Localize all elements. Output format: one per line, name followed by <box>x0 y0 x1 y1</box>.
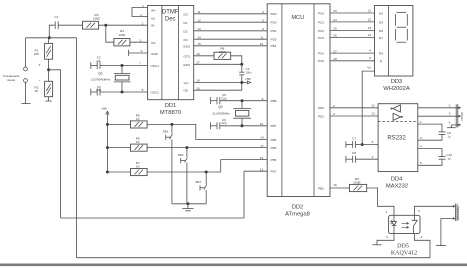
svg-text:PB0: PB0 <box>271 138 277 142</box>
optocoupler DD5 KAQV412 box <box>389 215 420 256</box>
svg-text:10: 10 <box>260 122 264 126</box>
svg-text:D2: D2 <box>184 29 188 33</box>
pushbutton SB1 <box>163 124 173 203</box>
wire: PC1 to D5 <box>330 21 375 23</box>
node: phone line terminal - <box>24 78 41 83</box>
wire: V- junction to pin6 <box>362 144 378 146</box>
node: rail R5 junction <box>106 123 109 126</box>
wire: PD1 to R1OUT <box>330 115 378 117</box>
svg-text:2: 2 <box>386 235 388 239</box>
wire: D1 to PD3 <box>194 21 268 23</box>
capacitor C3 <box>96 85 101 96</box>
wire: node to R2 <box>48 70 50 82</box>
svg-text:14: 14 <box>368 33 372 37</box>
svg-text:OSC2: OSC2 <box>151 91 160 95</box>
node: V- junction <box>361 143 364 146</box>
pushbutton SB3 <box>195 172 207 204</box>
wire: R8 to ESO node <box>231 56 242 65</box>
node A junction <box>48 36 51 39</box>
svg-text:PB3: PB3 <box>271 146 277 150</box>
DD4 pin numbers <box>371 104 422 166</box>
svg-text:6: 6 <box>418 209 420 213</box>
svg-text:C7: C7 <box>352 137 356 141</box>
svg-text:+5B: +5B <box>245 77 251 81</box>
LCD DD3 WH2002A box <box>375 6 413 92</box>
svg-text:C8: C8 <box>352 151 356 155</box>
crystal Q1 3.579545MHz <box>91 66 131 93</box>
svg-text:PC2: PC2 <box>318 29 324 33</box>
svg-text:DD3: DD3 <box>391 79 403 85</box>
svg-text:ATmega8: ATmega8 <box>285 212 310 218</box>
wire: Vcc row <box>194 82 242 84</box>
svg-text:PC4: PC4 <box>318 52 324 56</box>
svg-text:11: 11 <box>368 8 371 12</box>
wire: OSC1 row with terminator <box>91 62 97 69</box>
svg-text:MAX232: MAX232 <box>386 184 408 190</box>
svg-text:PD0: PD0 <box>318 106 324 110</box>
RS232 driver DD4 MAX232 box <box>378 104 418 190</box>
wire: PD0 to T1IN <box>330 107 378 109</box>
svg-text:13: 13 <box>371 112 375 116</box>
wire: control connector low side to ground <box>436 219 453 246</box>
wire: opto pin6 to control connector <box>414 206 452 215</box>
wire: R2 to ground <box>48 97 50 101</box>
svg-text:C1: C1 <box>55 15 59 19</box>
svg-text:5: 5 <box>449 120 451 124</box>
buffer triangle (receiver) <box>391 105 401 112</box>
node: XTAL1 junction <box>241 99 244 102</box>
svg-text:GS: GS <box>151 41 155 45</box>
wire: bus to MCU PD7 <box>61 171 244 218</box>
wire: junction down to R4 <box>106 25 114 42</box>
svg-text:6: 6 <box>372 140 374 144</box>
control connector X2 <box>453 204 461 221</box>
wire: R6 row to PB3 <box>147 147 267 149</box>
svg-text:3: 3 <box>140 38 142 42</box>
wire: PD7 row from bus <box>244 170 267 172</box>
svg-text:PC5: PC5 <box>318 59 324 63</box>
ground (opto pin2) <box>372 244 381 246</box>
wire: DD1 GND pin terminator <box>129 50 148 56</box>
node: Vcc junction <box>240 81 243 84</box>
capacitor C1 <box>55 15 59 29</box>
node: SB2 junction <box>185 146 188 149</box>
wire: C5 to PB6 <box>220 100 267 102</box>
svg-text:100n: 100n <box>246 71 252 75</box>
svg-text:C10: C10 <box>447 153 453 157</box>
svg-text:12: 12 <box>371 104 375 108</box>
wire: + terminal up to top node <box>25 38 27 67</box>
wire: PC3 to D7 <box>330 36 375 38</box>
svg-text:линия: линия <box>7 78 16 82</box>
svg-text:200E: 200E <box>353 180 360 184</box>
svg-text:1: 1 <box>142 4 144 8</box>
node: rail R6 junction <box>106 146 109 149</box>
svg-text:ESO: ESO <box>184 63 191 67</box>
power +5B arrow (DD1) <box>242 77 251 84</box>
wire: ESO to PB1 <box>194 45 268 47</box>
svg-text:14: 14 <box>260 136 264 140</box>
ground (buttons) <box>182 204 193 211</box>
svg-text:13: 13 <box>368 26 372 30</box>
svg-text:1μ: 1μ <box>448 135 451 139</box>
svg-text:Vo: Vo <box>367 66 371 70</box>
svg-text:PB1: PB1 <box>271 44 277 48</box>
wire: TX out to connector <box>418 107 459 109</box>
svg-text:RS232: RS232 <box>460 112 464 121</box>
wire: top horizontal node row <box>26 37 77 39</box>
svg-text:5: 5 <box>420 161 422 165</box>
wire: C6 to PB7 <box>220 125 267 127</box>
svg-text:PD2: PD2 <box>271 12 277 16</box>
svg-text:6: 6 <box>262 27 264 31</box>
svg-text:Q1: Q1 <box>98 72 103 76</box>
wire: bottom bus <box>77 257 430 259</box>
LCD DD3 pin numbers <box>367 8 371 69</box>
wire: D0 to PD2 <box>194 13 268 15</box>
buffer triangle (driver) <box>393 113 403 120</box>
svg-text:3: 3 <box>449 112 451 116</box>
svg-text:GTO: GTO <box>184 54 191 58</box>
wire: top node down right rail to bottom bus <box>76 38 78 258</box>
svg-text:12: 12 <box>368 17 372 21</box>
wire: PB7 row terminator <box>211 122 217 129</box>
svg-text:23: 23 <box>333 9 337 13</box>
svg-text:7: 7 <box>139 62 141 66</box>
wire: node up to C1 <box>49 25 55 38</box>
wire: D2 to PD4 <box>194 30 268 32</box>
wire: GTO to R8 <box>194 55 214 57</box>
svg-text:100K: 100K <box>219 50 227 54</box>
RS232 connector X1 <box>449 103 464 127</box>
resistor R4 <box>114 29 130 46</box>
svg-text:Vcc: Vcc <box>184 81 190 85</box>
svg-text:RS232: RS232 <box>387 136 406 142</box>
resistor R1 <box>34 43 53 59</box>
wire: C1 to R3 <box>58 24 82 26</box>
capacitor C6 <box>217 118 227 130</box>
svg-text:DD5: DD5 <box>397 244 409 250</box>
label: telephone line <box>3 74 20 82</box>
power +5B arrow (buttons rail) <box>101 107 109 173</box>
svg-text:MCU: MCU <box>291 15 304 21</box>
resistor R9 <box>330 177 367 192</box>
svg-text:2: 2 <box>449 103 451 107</box>
svg-text:PC1: PC1 <box>318 20 324 24</box>
capacitor C4 <box>239 64 252 82</box>
svg-text:100K: 100K <box>93 17 101 21</box>
svg-text:PB7: PB7 <box>271 124 277 128</box>
svg-text:4: 4 <box>140 13 142 17</box>
svg-text:1: 1 <box>420 120 422 124</box>
DD1 left pin names <box>151 9 160 95</box>
svg-text:100K: 100K <box>118 33 126 37</box>
wire: R9 to opto pin1 <box>367 188 394 215</box>
svg-text:C4: C4 <box>246 67 250 71</box>
svg-text:GND: GND <box>151 52 159 56</box>
svg-text:DD4: DD4 <box>391 177 403 183</box>
svg-text:RS: RS <box>379 52 383 56</box>
svg-text:PD1: PD1 <box>318 114 324 118</box>
resistor R8 <box>214 47 231 60</box>
node: SB3 junction <box>205 171 208 174</box>
capacitor C7 <box>346 137 362 149</box>
pushbutton SB2 <box>178 148 188 204</box>
svg-text:11,0592MHz: 11,0592MHz <box>212 111 230 115</box>
wire: DB9 pin5 to ground <box>447 125 458 128</box>
svg-text:22n: 22n <box>96 59 101 63</box>
svg-text:11: 11 <box>260 35 263 39</box>
svg-text:2: 2 <box>142 22 144 26</box>
node: rail ground junction <box>186 202 189 205</box>
svg-text:D6: D6 <box>379 29 383 33</box>
wire: R1 leads <box>48 38 50 44</box>
DD5 output switch <box>412 215 418 233</box>
svg-text:DD1: DD1 <box>165 103 177 109</box>
svg-text:DTMF: DTMF <box>162 10 179 16</box>
wire: DD1 pin1-pin4 loop <box>132 8 148 17</box>
DD2 right pin names <box>318 11 324 190</box>
svg-text:D3: D3 <box>184 38 188 42</box>
wire: opto pin2 to ground <box>377 234 394 245</box>
svg-text:20K: 20K <box>34 52 40 56</box>
svg-text:DD2: DD2 <box>292 205 304 211</box>
svg-text:PC3: PC3 <box>318 36 324 40</box>
svg-text:2: 2 <box>372 155 374 159</box>
svg-text:5: 5 <box>262 18 264 22</box>
node: SB1 junction <box>170 123 173 126</box>
svg-text:PD7: PD7 <box>271 170 277 174</box>
svg-text:6: 6 <box>369 56 371 60</box>
svg-text:MT8870: MT8870 <box>160 110 181 116</box>
wire: PC4 to RS <box>330 52 375 54</box>
svg-text:PD5: PD5 <box>271 38 277 42</box>
svg-text:SB1: SB1 <box>163 129 169 133</box>
svg-text:E: E <box>380 59 382 63</box>
DD1 right pin names <box>184 12 191 92</box>
svg-text:D7: D7 <box>379 36 383 40</box>
svg-text:+5B: +5B <box>101 107 107 111</box>
svg-text:KAQV412: KAQV412 <box>391 251 417 257</box>
svg-text:19: 19 <box>260 156 264 160</box>
resistor R2 <box>35 81 53 96</box>
wire: PC0 to D4 <box>330 12 375 14</box>
wire: PC2 to D6 <box>330 30 375 32</box>
svg-text:PD3: PD3 <box>271 21 277 25</box>
svg-text:15: 15 <box>260 42 264 46</box>
wire: - terminal down to ground <box>25 82 27 103</box>
capacitor C5 <box>217 93 227 104</box>
wire: R4 to DD1 GS <box>130 41 148 43</box>
svg-text:17: 17 <box>260 144 264 148</box>
svg-text:PB5: PB5 <box>271 158 277 162</box>
svg-text:D0: D0 <box>184 12 188 16</box>
svg-text:1: 1 <box>386 210 388 214</box>
svg-text:9: 9 <box>262 97 264 101</box>
DD5 pin numbers <box>386 209 423 239</box>
DD1 pin numbers <box>139 4 201 92</box>
svg-text:D5: D5 <box>379 20 383 24</box>
node: XTAL2 junction <box>241 124 244 127</box>
node: OSC2 junction <box>121 91 124 94</box>
LCD digit glyph <box>395 13 407 43</box>
wire: OSC2 row with terminator <box>91 89 97 96</box>
MCU DD2 ATmega8 box <box>267 4 330 218</box>
svg-text:ESO: ESO <box>184 44 191 48</box>
wire: R7 row to bend to PB5 <box>147 160 267 172</box>
svg-text:PB2: PB2 <box>318 186 324 190</box>
svg-text:8: 8 <box>142 88 144 92</box>
svg-text:Ud: Ud <box>151 17 155 21</box>
DD3 left pin names <box>379 11 383 63</box>
capacitor C10 charge pump loop <box>418 149 453 166</box>
ground (R2) <box>45 100 51 102</box>
resistor R6 <box>107 137 147 152</box>
resistor R7 <box>107 161 147 176</box>
svg-text:4: 4 <box>262 10 264 14</box>
wire: PB6 row terminator <box>211 97 217 104</box>
svg-text:SB2: SB2 <box>178 153 184 157</box>
svg-text:22p: 22p <box>221 96 226 100</box>
svg-text:11: 11 <box>197 10 200 14</box>
svg-text:4: 4 <box>369 49 371 53</box>
node: steering junction <box>240 63 243 66</box>
node: OSC1 junction <box>121 64 124 67</box>
DD2 pin numbers <box>260 9 337 187</box>
svg-text:SB3: SB3 <box>195 180 201 184</box>
svg-text:PC0: PC0 <box>318 11 324 15</box>
wire: PC5 to E <box>330 60 375 62</box>
svg-text:Dec: Dec <box>165 17 176 23</box>
svg-text:3: 3 <box>420 136 422 140</box>
wire: buttons common rail <box>172 203 206 205</box>
svg-text:OE: OE <box>184 89 188 93</box>
svg-text:13: 13 <box>260 167 264 171</box>
page border band <box>0 264 467 267</box>
wire: opto pin4 to bottom bus <box>414 234 430 258</box>
wire: sense tap to PD7 bus <box>49 70 61 218</box>
op-amp/IC DD1 MT8870 box <box>148 6 194 116</box>
wire: ESO17 row <box>194 63 242 65</box>
node: R1 bottom junction <box>47 68 50 71</box>
svg-text:4: 4 <box>421 235 423 239</box>
svg-text:OSC1: OSC1 <box>151 64 160 68</box>
wire: R3 to DD1 pin2 <box>99 24 148 26</box>
svg-text:Q2: Q2 <box>218 105 223 109</box>
crystal Q2 11.0592MHz <box>212 101 251 126</box>
wire: R5 to bend to PB0 <box>147 124 267 139</box>
svg-text:6: 6 <box>141 49 143 53</box>
wire: RX in from connector <box>418 115 459 117</box>
svg-text:1μ: 1μ <box>448 157 451 161</box>
svg-text:12: 12 <box>197 18 201 22</box>
svg-text:PB6: PB6 <box>271 99 277 103</box>
wire: C3 to OSC2 <box>100 91 148 93</box>
svg-text:4: 4 <box>420 145 422 149</box>
node: phone line terminal + <box>24 63 42 71</box>
svg-text:C9: C9 <box>447 131 451 135</box>
svg-text:Управление: Управление <box>457 206 461 221</box>
svg-text:3,579545MHz: 3,579545MHz <box>91 78 111 82</box>
resistor R3 <box>83 13 102 29</box>
wire: C2 to OSC1 <box>100 65 148 67</box>
wire: Vo contrast line down to V- node <box>362 71 374 144</box>
svg-text:PD4: PD4 <box>271 29 277 33</box>
DD2 left pin names <box>271 12 277 173</box>
node: rail R7 junction <box>106 171 109 174</box>
resistor R5 <box>107 113 147 128</box>
DD5 coupling arrows <box>402 222 409 228</box>
svg-text:IN-: IN- <box>151 24 155 28</box>
svg-text:WH2002A: WH2002A <box>383 86 410 92</box>
capacitor C8 <box>346 151 378 163</box>
ground (phone line) <box>22 103 31 105</box>
capacitor C2 <box>96 56 101 69</box>
DD5 LED <box>390 215 396 233</box>
svg-text:D4: D4 <box>379 11 383 15</box>
svg-text:D1: D1 <box>184 21 188 25</box>
svg-text:IN+: IN+ <box>151 9 156 13</box>
node: IN- junction <box>104 24 107 27</box>
svg-text:16: 16 <box>333 183 337 187</box>
capacitor C9 charge pump loop <box>418 124 451 140</box>
wire: D3 to PD5 <box>194 38 268 40</box>
svg-text:22p: 22p <box>221 121 226 125</box>
wire: OE row tied to +5 <box>194 83 242 91</box>
